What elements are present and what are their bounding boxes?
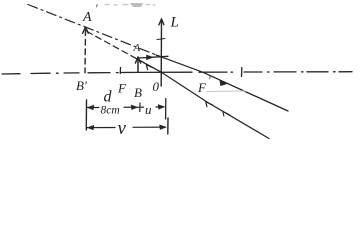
svg-text:u: u xyxy=(145,102,152,117)
lens line L (vertical axis) xyxy=(159,19,164,86)
svg-text:′: ′ xyxy=(95,1,98,15)
svg-text:B′: B′ xyxy=(76,78,87,93)
svg-text:F: F xyxy=(117,81,127,96)
dimension u (B to lens) xyxy=(156,105,165,110)
svg-text:0: 0 xyxy=(153,79,160,94)
svg-text:′: ′ xyxy=(208,73,211,87)
axis tick: focal point F (object side) xyxy=(119,68,121,74)
dimension: left shared bar at B' xyxy=(85,100,87,130)
faint underline below F' xyxy=(207,90,246,93)
refracted ray R1 (lens to lower right, through F') xyxy=(156,55,288,111)
object arrow AB xyxy=(135,57,140,72)
small tick on lens line xyxy=(157,39,165,40)
optical axis (dash-dot principal axis) xyxy=(2,72,352,74)
central ray R2 (A through optical centre 0) xyxy=(138,60,269,139)
axis tick: point near F' / 2F' xyxy=(241,68,243,77)
right bar for u xyxy=(165,99,167,120)
svg-text:8cm: 8cm xyxy=(101,105,120,117)
parallel ray from A to lens xyxy=(139,55,168,60)
svg-text:F: F xyxy=(197,80,207,95)
svg-text:d: d xyxy=(104,89,113,106)
virtual image arrow A'B' (dashed, upward) xyxy=(83,27,89,73)
svg-text:B: B xyxy=(134,85,142,100)
scan smudge top edge xyxy=(105,4,155,6)
svg-text:A: A xyxy=(82,10,92,25)
svg-text:v: v xyxy=(118,118,127,139)
plus tick at B xyxy=(137,103,144,112)
dimension v (B' to lens) xyxy=(87,125,166,130)
svg-text:L: L xyxy=(170,15,179,31)
dash-dot backward extension of R1 (to A') xyxy=(28,5,161,57)
dashed backward extension of R2 (to A') xyxy=(87,32,138,60)
dimension 8cm (B' to B) xyxy=(87,105,138,110)
right bar for v xyxy=(167,118,169,134)
